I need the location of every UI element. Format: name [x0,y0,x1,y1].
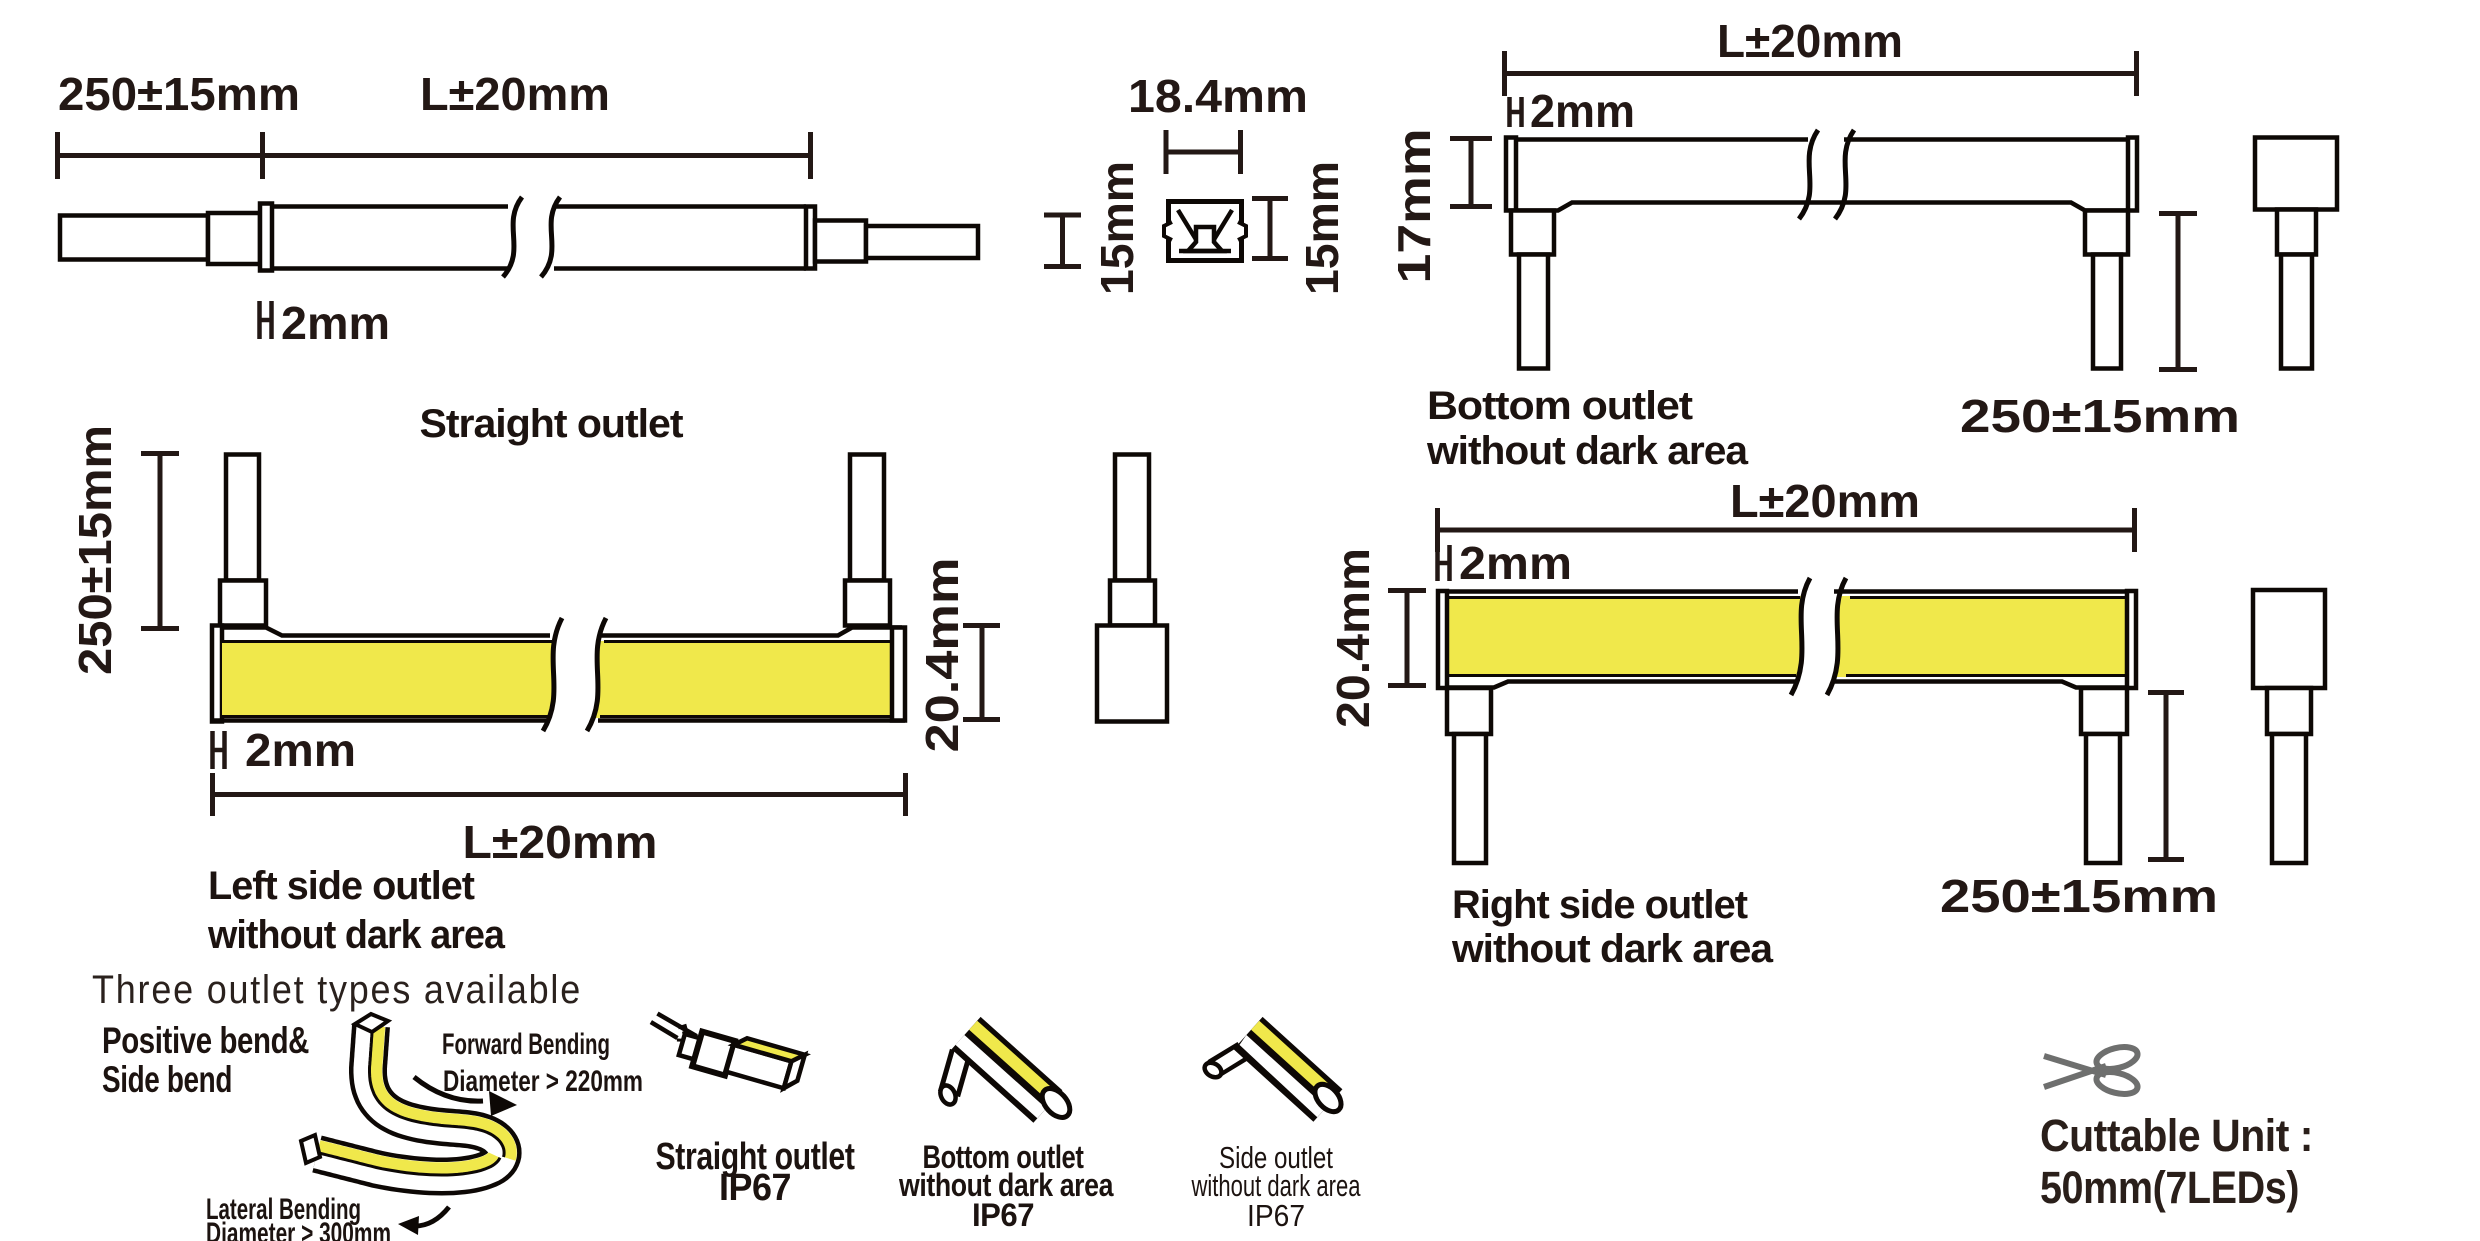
svg-text:15mm: 15mm [1091,161,1143,295]
end view wire (bottom outlet) [2281,255,2312,369]
strip body left end cap [260,204,272,271]
svg-text:18.4mm: 18.4mm [1128,70,1308,122]
2mm extent marker [260,301,272,339]
end view block (left side outlet) [1097,626,1167,722]
strip body right end cap [806,207,815,269]
svg-text:20.4mm: 20.4mm [916,558,968,753]
left top leg connector [220,581,266,626]
right bottom leg connector [2085,211,2128,255]
yellow strip left piece (right side outlet) [1449,570,1810,705]
break squiggle left [503,197,522,277]
right bottom leg connector (right side outlet) [2081,688,2127,734]
scissors icon [2044,1043,2140,1098]
250mm vertical dimension (left side outlet) [141,451,179,630]
svg-text:Forward Bending: Forward Bending [442,1028,610,1061]
yellow strip right piece [587,610,892,745]
right clip notch [1237,222,1246,240]
body top outline with bevels (left side outlet) [212,628,905,721]
svg-text:Side bend: Side bend [102,1059,232,1100]
bent neon strip illustration [312,1025,521,1196]
svg-text:Positive bend&: Positive bend& [102,1020,309,1061]
right top leg wire [850,455,884,581]
break squiggle left (right side outlet) [1791,578,1810,695]
17mm vertical dimension [1450,137,1492,208]
left clip notch [1164,222,1173,240]
svg-text:Diameter > 300mm: Diameter > 300mm [206,1217,391,1241]
svg-text:Right side outlet: Right side outlet [1452,883,1748,927]
svg-text:L±20mm: L±20mm [1717,15,1903,67]
end view wire (right side outlet) [2272,734,2306,863]
right connector block [815,221,866,262]
profile LED pedestal [1188,227,1222,251]
15mm vertical dimension (right of straight outlet) [1044,213,1081,268]
left bottom leg connector (right side outlet) [1447,688,1491,734]
profile inner V lines [1178,210,1232,246]
250±15mm vertical dimension (right side outlet) [2148,691,2184,861]
left lead wire [60,216,208,260]
svg-text:Diameter > 220mm: Diameter > 220mm [443,1065,643,1098]
svg-text:250±15mm: 250±15mm [1960,390,2240,442]
2mm extent marker (left side outlet) [213,731,225,769]
2mm extent marker (bottom outlet) [1510,97,1522,127]
neon strip bottom-left end face [301,1135,320,1163]
svg-text:IP67: IP67 [1247,1198,1305,1233]
svg-text:Left side outlet: Left side outlet [208,864,475,908]
break squiggle left (bottom outlet) [1799,130,1818,219]
end view connector (bottom outlet) [2277,210,2316,255]
left connector block [208,213,260,264]
end view connector (right side outlet) [2267,688,2311,734]
strip body right end cap (left side outlet) [892,628,905,721]
dimension line with ticks (250mm + L segments) [57,132,813,179]
end view connector (left side outlet) [1110,581,1155,626]
svg-text:250±15mm: 250±15mm [1940,870,2218,922]
svg-text:without dark area: without dark area [1426,429,1749,473]
right bottom leg wire (right side outlet) [2086,734,2120,863]
svg-text:L±20mm: L±20mm [1730,475,1920,527]
break squiggle right (right side outlet) [1827,578,1846,695]
bottom outlet icon [937,1017,1075,1123]
svg-text:L±20mm: L±20mm [420,68,610,120]
break squiggle right (left side outlet) [587,618,606,731]
svg-text:L±20mm: L±20mm [463,816,658,868]
svg-text:Three outlet types available: Three outlet types available [92,968,582,1012]
2mm extent marker (right side outlet) [1438,545,1450,581]
right top leg connector [845,581,890,626]
left top leg wire [226,455,259,581]
svg-text:Straight outlet: Straight outlet [420,402,684,446]
svg-text:2mm: 2mm [281,297,390,349]
svg-text:250±15mm: 250±15mm [69,425,121,675]
svg-text:2mm: 2mm [1459,537,1572,589]
L dimension line (right side outlet) [1437,508,2137,552]
left bottom leg wire [1519,255,1548,369]
right lead wire [866,226,978,258]
svg-text:without dark area: without dark area [207,913,506,957]
L dimension line (left side outlet) [212,773,908,816]
straight outlet icon [642,1011,804,1095]
strip body outline (bottom outlet) [1516,140,2128,211]
15mm vertical dimension (cross-section) [1252,197,1288,260]
lateral bending arrow [413,1207,449,1226]
L dimension line (bottom outlet) [1504,51,2139,96]
left bottom leg wire (right side outlet) [1454,734,1486,863]
break squiggle right [541,197,560,277]
end view block (bottom outlet) [2255,138,2337,210]
strip body outline (with break gap) [272,207,806,269]
strip body left end cap (bottom outlet) [1506,138,1516,211]
strip body right end cap (bottom outlet) [2128,138,2137,211]
svg-text:20.4mm: 20.4mm [1327,548,1379,728]
side outlet icon [1202,1017,1346,1122]
strip body left end cap (left side outlet) [212,626,222,722]
strip body left end cap (right side outlet) [1438,591,1447,688]
right bottom leg wire [2093,255,2121,369]
20.4mm vertical dimension (left side outlet) [963,624,1000,721]
20.4mm vertical dimension (right side outlet) [1388,589,1426,687]
end view block (right side outlet) [2253,590,2325,688]
yellow strip left piece [222,610,562,745]
end view wire (left side outlet) [1115,455,1149,581]
strip body right end cap (right side outlet) [2127,591,2136,688]
svg-text:17mm: 17mm [1388,129,1440,284]
18.4mm dimension line [1166,130,1243,174]
250±15mm vertical dimension (bottom outlet) [2159,212,2197,371]
forward bending arrow [414,1077,483,1101]
svg-text:IP67: IP67 [719,1167,791,1209]
svg-text:2mm: 2mm [245,724,356,776]
neon strip top end face [355,1014,388,1032]
svg-text:250±15mm: 250±15mm [58,68,300,120]
break squiggle left (left side outlet) [543,618,562,731]
svg-text:15mm: 15mm [1296,161,1348,295]
body outline (right side outlet) [1447,592,2127,688]
svg-text:50mm(7LEDs): 50mm(7LEDs) [2040,1162,2299,1213]
left bottom leg connector [1511,211,1554,255]
svg-text:Bottom outlet: Bottom outlet [1427,384,1693,428]
yellow strip right piece (right side outlet) [1827,570,2127,705]
cross-section profile body [1169,202,1242,261]
svg-text:without dark area: without dark area [1451,927,1774,971]
svg-text:2mm: 2mm [1530,85,1635,137]
svg-text:Cuttable Unit :: Cuttable Unit : [2040,1110,2313,1161]
profile bottom inner line [1179,249,1231,254]
svg-text:IP67: IP67 [972,1197,1034,1233]
break squiggle right (bottom outlet) [1835,130,1854,219]
